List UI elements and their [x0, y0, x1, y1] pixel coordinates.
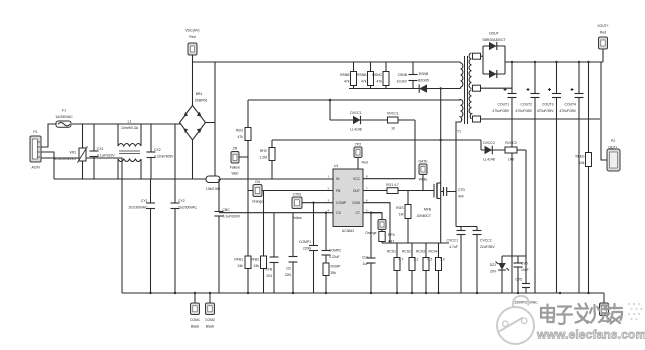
wire COMP line	[302, 202, 333, 204]
svg-text:0.22uF/305V: 0.22uF/305V	[154, 155, 174, 159]
wire snubber bottom	[349, 88, 461, 90]
resistor RVCC1	[387, 112, 399, 131]
capacitor CD	[285, 213, 298, 293]
svg-text:CY1: CY1	[141, 199, 148, 203]
svg-text:LL4148: LL4148	[350, 128, 361, 132]
svg-text:COUT3: COUT3	[542, 103, 554, 107]
terminal COM2 Black	[205, 293, 215, 329]
svg-text:2n2/300VAC: 2n2/300VAC	[129, 206, 149, 210]
SECTION: watermark	[497, 296, 645, 344]
svg-text:1.1: 1.1	[414, 258, 419, 262]
wire HV rail	[193, 61, 461, 63]
svg-text:RSNB: RSNB	[340, 73, 350, 77]
wire CS line	[382, 242, 449, 244]
svg-text:LL4148: LL4148	[483, 158, 494, 162]
capacitor CX2	[147, 124, 175, 179]
wire CT pin line	[363, 212, 382, 214]
svg-text:www.elecfans.com: www.elecfans.com	[536, 328, 645, 342]
svg-text:39k: 39k	[331, 271, 337, 275]
svg-text:CN: CN	[255, 180, 260, 184]
terminal CTR Yellow	[292, 193, 302, 221]
svg-text:FB: FB	[336, 189, 341, 193]
SECTION: bridge	[180, 29, 461, 180]
resistor RG1	[386, 183, 399, 194]
svg-text:470uF/35V: 470uF/35V	[559, 109, 576, 113]
capacitor COUT4	[559, 62, 583, 293]
capacitor CFB	[265, 213, 278, 293]
wire CS sense line	[219, 212, 333, 214]
svg-text:Red: Red	[362, 161, 368, 165]
terminal GATE White	[419, 160, 429, 191]
svg-text:CBC: CBC	[223, 208, 231, 212]
diode DVCC2	[481, 141, 505, 162]
wire COM pin drop	[363, 203, 390, 243]
svg-text:1.2M: 1.2M	[259, 156, 267, 160]
svg-text:470uF/35V: 470uF/35V	[537, 109, 554, 113]
capacitor CVCC2	[473, 227, 496, 294]
pin numbers U1	[327, 175, 368, 213]
node bus junctions	[149, 292, 589, 294]
svg-text:4.7uF: 4.7uF	[449, 245, 458, 249]
zener DZ1	[490, 256, 526, 293]
svg-text:CX1: CX1	[97, 147, 104, 151]
connector P1	[30, 130, 41, 170]
svg-text:2n2/300VAC: 2n2/300VAC	[178, 206, 198, 210]
svg-text:47k: 47k	[344, 80, 350, 84]
wire OUT gate line	[363, 190, 431, 192]
transformer T1	[456, 53, 472, 227]
svg-text:Red: Red	[600, 31, 606, 35]
svg-text:Yellow: Yellow	[292, 216, 302, 220]
wire aux drop	[329, 100, 331, 120]
terminal OUT Black	[600, 293, 609, 323]
svg-text:2KBP06: 2KBP06	[195, 99, 208, 103]
capacitor CY5	[514, 278, 538, 305]
wire bridge minus	[192, 140, 194, 179]
svg-text:0.1uF/310V: 0.1uF/310V	[97, 154, 115, 158]
svg-text:47k: 47k	[238, 135, 244, 139]
svg-text:220N: 220N	[303, 247, 312, 251]
transistor Q1 mosfet	[416, 183, 440, 243]
svg-text:RP4: RP4	[388, 233, 395, 237]
choke L1	[118, 120, 141, 180]
svg-text:CFB: CFB	[265, 268, 273, 272]
svg-text:CY2: CY2	[178, 199, 185, 203]
svg-text:P1: P1	[33, 130, 37, 134]
svg-text:RSNB: RSNB	[357, 73, 367, 77]
terminal ZR Failure	[230, 147, 248, 176]
node snubber junction	[440, 87, 442, 89]
svg-text:1uF: 1uF	[363, 262, 369, 266]
connector P2	[601, 62, 620, 171]
capacitor CTD	[441, 187, 466, 199]
svg-text:MFB: MFB	[424, 208, 432, 212]
ferrite bead FB1	[473, 53, 484, 59]
resistor RSNB2	[357, 62, 373, 89]
svg-text:U1: U1	[334, 164, 338, 168]
svg-text:CV5: CV5	[521, 262, 528, 266]
resistor RCS4	[428, 243, 444, 293]
svg-text:CVCC2: CVCC2	[480, 239, 492, 243]
svg-text:204: 204	[266, 274, 272, 278]
svg-text:RLED: RLED	[575, 155, 585, 159]
SECTION: ic	[327, 143, 431, 244]
wire vcc feed line	[272, 139, 481, 141]
capacitor CLF	[362, 213, 375, 293]
svg-text:RFB1: RFB1	[234, 258, 243, 262]
svg-text:COUT4: COUT4	[565, 103, 577, 107]
capacitor CY1	[129, 179, 155, 293]
capacitor COUT3	[537, 62, 561, 293]
resistor RFB1	[234, 256, 251, 269]
ferrite bead FB3	[473, 116, 601, 122]
capacitor CVCC1	[447, 227, 478, 294]
wire rail drop	[214, 62, 216, 179]
capacitor CX1	[90, 124, 116, 179]
diode DOUT pair	[482, 32, 505, 79]
svg-text:S14K300E2K1: S14K300E2K1	[54, 157, 76, 161]
svg-text:Failure: Failure	[230, 166, 240, 170]
SECTION: output	[447, 24, 621, 305]
svg-text:10k: 10k	[579, 161, 585, 165]
wire bridge right return	[206, 122, 216, 124]
svg-text:470uF/35V: 470uF/35V	[492, 109, 509, 113]
svg-text:CS: CS	[336, 211, 341, 215]
wire earth line	[41, 158, 122, 293]
svg-text:UC3842: UC3842	[342, 229, 355, 233]
wire HV aux line	[248, 99, 461, 101]
resistor RCS3	[416, 243, 432, 293]
resistor RSU	[236, 100, 251, 293]
svg-text:RFB2: RFB2	[250, 258, 259, 262]
svg-text:COUT1: COUT1	[498, 103, 510, 107]
svg-text:ZR: ZR	[233, 147, 238, 151]
svg-text:COMP1: COMP1	[299, 240, 311, 244]
SECTION: input	[30, 109, 206, 294]
capacitor COUT1	[492, 62, 516, 293]
wire AC top line	[72, 123, 181, 125]
varistor VR1	[54, 124, 88, 179]
resistor RSNB1	[340, 62, 356, 89]
svg-text:F1: F1	[62, 109, 66, 113]
wire startup line to IC	[220, 178, 333, 180]
resistor RP4	[379, 230, 395, 244]
terminal CN Orange	[252, 180, 263, 204]
wire output rail	[505, 61, 603, 63]
svg-text:COM: COM	[352, 201, 360, 205]
svg-text:24k: 24k	[254, 264, 260, 268]
node aux junction	[329, 99, 332, 102]
svg-text:CTD: CTD	[458, 188, 466, 192]
svg-text:RCS4: RCS4	[428, 250, 437, 254]
svg-text:Black: Black	[206, 325, 215, 329]
SECTION: mosfet	[362, 160, 465, 294]
terminal COM1 Black	[190, 293, 200, 329]
svg-text:VDC(HV): VDC(HV)	[185, 29, 199, 33]
resistor RHV 1.2M	[259, 140, 275, 179]
svg-text:0.22uF: 0.22uF	[329, 255, 340, 259]
svg-text:P2: P2	[611, 139, 615, 143]
svg-text:VR1: VR1	[69, 151, 76, 155]
svg-text:T1: T1	[457, 130, 461, 134]
wire VCC pin line	[363, 178, 415, 180]
svg-text:BZG05: BZG05	[418, 79, 429, 83]
svg-text:COMP: COMP	[336, 201, 347, 205]
svg-text:L1: L1	[128, 120, 132, 124]
svg-text:SBR20A300CT: SBR20A300CT	[482, 38, 505, 42]
svg-text:DOUT: DOUT	[489, 32, 499, 36]
wire dvcc1 row	[330, 119, 415, 121]
svg-text:RHV: RHV	[260, 149, 268, 153]
resistor RCS2	[402, 243, 418, 293]
capacitor CBC	[215, 179, 241, 293]
svg-text:GATE: GATE	[419, 160, 429, 164]
svg-text:DVCC1: DVCC1	[350, 111, 362, 115]
svg-text:10uF: 10uF	[521, 268, 529, 272]
svg-text:Black: Black	[191, 325, 200, 329]
node rail junctions	[511, 61, 590, 63]
svg-text:CLF: CLF	[362, 256, 368, 260]
svg-text:0.5: 0.5	[428, 258, 433, 262]
capacitor COMP2	[322, 212, 342, 264]
svg-text:Red: Red	[189, 35, 195, 39]
terminal TP Orange	[365, 212, 386, 236]
svg-text:White: White	[419, 178, 428, 182]
wire vcc drop	[414, 120, 416, 179]
fuse F1	[55, 109, 73, 128]
svg-text:RCS2: RCS2	[402, 250, 411, 254]
terminal VDC(HV) Red	[185, 29, 199, 63]
svg-text:VOUT+: VOUT+	[597, 24, 608, 28]
svg-text:4R7: 4R7	[388, 240, 394, 244]
svg-text:47k: 47k	[361, 80, 367, 84]
svg-text:10mH/0.3A: 10mH/0.3A	[121, 126, 139, 130]
wire aux rect feed	[480, 140, 482, 150]
wire N line	[41, 152, 54, 179]
resistor RVCC2	[505, 141, 526, 162]
svg-text:1n/1kV: 1n/1kV	[396, 80, 407, 84]
SECTION: middle	[206, 99, 481, 293]
svg-text:1R0: 1R0	[508, 158, 514, 162]
svg-text:CX2: CX2	[154, 148, 161, 152]
wire drain drop	[440, 89, 442, 184]
diode DSNB	[418, 72, 429, 93]
fusible resistor RF1	[206, 176, 221, 191]
capacitor CSNB	[396, 62, 417, 89]
svg-text:OUT: OUT	[353, 189, 360, 193]
capacitor CY2	[171, 124, 198, 293]
capacitor COMP1	[299, 202, 318, 294]
wire ground bus	[122, 292, 604, 294]
svg-text:Web: Web	[232, 172, 239, 176]
svg-text:1.0: 1.0	[440, 258, 445, 262]
svg-text:47k: 47k	[377, 80, 383, 84]
svg-text:COM1: COM1	[190, 318, 200, 322]
svg-text:22uF/35V: 22uF/35V	[480, 245, 495, 249]
resistor RCS1	[387, 243, 403, 293]
svg-text:RG1 4.7: RG1 4.7	[386, 183, 399, 187]
svg-text:COM2: COM2	[205, 318, 215, 322]
svg-text:CY5: CY5	[515, 278, 522, 282]
svg-text:IN: IN	[336, 177, 340, 181]
wire AC bottom line	[54, 178, 206, 180]
capacitor CV5	[514, 256, 529, 293]
wire FB line	[248, 190, 333, 192]
diode DVCC1	[350, 111, 362, 132]
wire bridge plus	[192, 62, 194, 106]
svg-text:CD: CD	[286, 267, 291, 271]
svg-text:RVCC2: RVCC2	[505, 141, 517, 145]
svg-text:BR1: BR1	[196, 92, 203, 96]
svg-text:4.7: 4.7	[399, 258, 404, 262]
resistor RCOMP	[323, 263, 341, 293]
svg-text:20V: 20V	[490, 270, 497, 274]
svg-text:RCS3: RCS3	[416, 250, 425, 254]
ferrite bead FB2	[473, 85, 513, 91]
SECTION: transformer	[340, 53, 600, 227]
svg-text:1A/250VAC: 1A/250VAC	[55, 115, 73, 119]
resistor RGS	[396, 191, 411, 244]
svg-text:22N: 22N	[285, 273, 292, 277]
svg-text:CSNB: CSNB	[398, 73, 408, 77]
svg-text:470uF/35V: 470uF/35V	[515, 109, 532, 113]
resistor RFB2	[250, 191, 266, 294]
svg-text:COMP2: COMP2	[329, 249, 341, 253]
svg-text:CVCC1: CVCC1	[447, 239, 459, 243]
svg-text:2200P/250VAC: 2200P/250VAC	[514, 301, 538, 305]
svg-text:24k: 24k	[238, 264, 244, 268]
svg-text:RSNC: RSNC	[372, 73, 382, 77]
svg-text:RSU: RSU	[236, 129, 244, 133]
svg-text:RCS1: RCS1	[387, 250, 396, 254]
svg-text:RVCC1: RVCC1	[387, 112, 399, 116]
pin names U1	[336, 177, 361, 215]
resistor RLED	[575, 62, 591, 293]
svg-text:10: 10	[391, 127, 395, 131]
svg-text:4nF: 4nF	[458, 195, 464, 199]
svg-text:DSNB: DSNB	[419, 72, 429, 76]
resistor RSNB3	[372, 62, 389, 89]
svg-text:ACIN: ACIN	[31, 166, 40, 170]
svg-text:RCMP: RCMP	[331, 265, 342, 269]
svg-text:10N60CT: 10N60CT	[416, 214, 431, 218]
wire vcc secondary drop	[525, 150, 527, 284]
svg-text:0.1uF/630V: 0.1uF/630V	[223, 215, 241, 219]
capacitor COUT2	[515, 62, 539, 293]
wire L line to fuse	[41, 124, 56, 147]
bridge rectifier BR1	[180, 92, 208, 140]
svg-text:DVCC2: DVCC2	[483, 141, 495, 145]
SECTION: bottom	[122, 292, 609, 329]
svg-text:CTR1: CTR1	[293, 193, 302, 197]
svg-text:1M: 1M	[399, 213, 404, 217]
svg-text:Orange: Orange	[252, 200, 263, 204]
terminal VOUT Red	[597, 24, 608, 62]
op-amp U1 controller	[333, 164, 363, 233]
svg-text:CT: CT	[355, 211, 360, 215]
svg-text:TP2: TP2	[355, 143, 361, 147]
svg-text:VCC: VCC	[353, 177, 361, 181]
svg-text:DZ1: DZ1	[490, 263, 497, 267]
svg-text:COUT2: COUT2	[521, 103, 533, 107]
svg-text:RGS: RGS	[396, 206, 404, 210]
terminal TP Red	[354, 143, 368, 170]
